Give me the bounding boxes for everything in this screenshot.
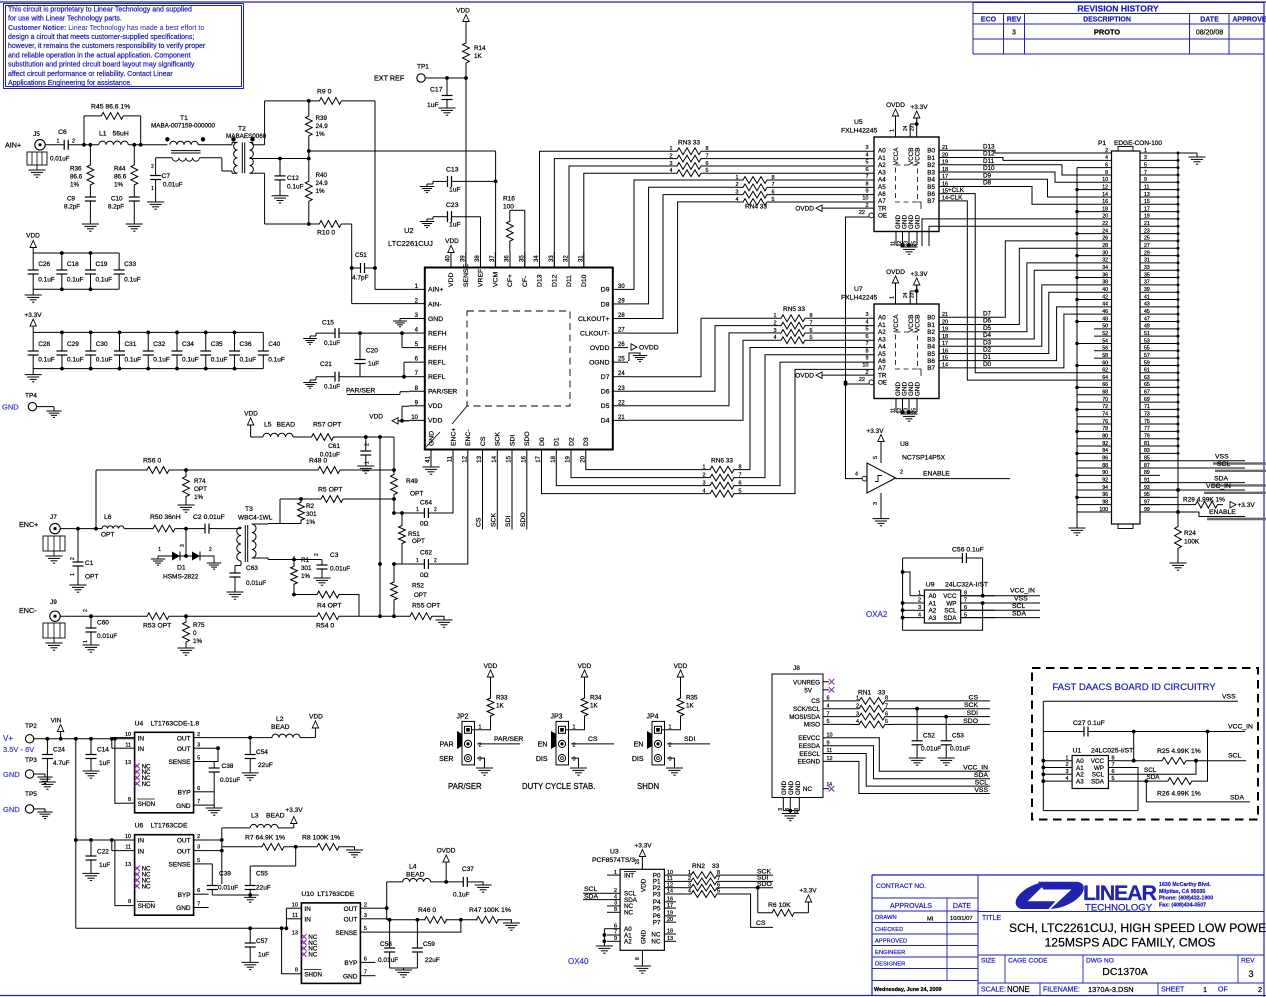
svg-text:R53 OPT: R53 OPT — [143, 623, 171, 630]
svg-text:OPT: OPT — [410, 491, 423, 498]
svg-text:11: 11 — [292, 913, 298, 919]
svg-text:41: 41 — [426, 455, 432, 462]
svg-text:T1: T1 — [180, 115, 188, 122]
svg-text:C15: C15 — [322, 320, 334, 327]
svg-text:TITLE: TITLE — [982, 915, 1001, 922]
svg-text:FAST DAACS BOARD ID CIRCUITRY: FAST DAACS BOARD ID CIRCUITRY — [1052, 682, 1216, 693]
svg-text:R1: R1 — [301, 557, 310, 564]
svg-text:DIS: DIS — [536, 756, 548, 763]
svg-text:SIZE: SIZE — [981, 958, 996, 965]
svg-text:A0: A0 — [929, 593, 937, 600]
svg-text:24: 24 — [618, 371, 625, 377]
svg-text:11: 11 — [448, 455, 454, 462]
svg-text:OVDD: OVDD — [795, 206, 814, 213]
svg-text:CS: CS — [588, 736, 598, 743]
svg-text:3: 3 — [614, 901, 617, 907]
svg-text:1%: 1% — [306, 519, 316, 526]
svg-text:29: 29 — [618, 298, 625, 304]
svg-text:6: 6 — [1112, 769, 1115, 775]
svg-text:A0: A0 — [878, 315, 886, 322]
svg-text:EDGE-CON-100: EDGE-CON-100 — [1114, 140, 1162, 147]
svg-text:L6: L6 — [104, 514, 112, 521]
svg-text:86.6: 86.6 — [70, 174, 83, 181]
U6 OUT wires to L3 — [209, 839, 222, 841]
svg-text:27: 27 — [618, 328, 625, 334]
svg-text:TP4: TP4 — [25, 393, 37, 400]
svg-text:LT1763CDE: LT1763CDE — [151, 823, 188, 830]
svg-text:LINEAR: LINEAR — [1083, 881, 1158, 905]
U4 OUT wire to L2 — [209, 737, 272, 739]
svg-text:PAR/SER: PAR/SER — [494, 736, 523, 743]
wire CF+ pin36 stub — [509, 252, 511, 268]
svg-text:BYP: BYP — [178, 892, 191, 899]
svg-text:OXA2: OXA2 — [866, 610, 888, 619]
svg-text:4: 4 — [1105, 155, 1108, 161]
svg-text:8: 8 — [865, 181, 868, 187]
svg-text:Applications Engineering for a: Applications Engineering for assistance. — [8, 80, 132, 87]
svg-text:24LC32A-I/ST: 24LC32A-I/ST — [945, 582, 988, 589]
svg-text:IN: IN — [304, 906, 311, 913]
wire R10 branch to AIN- pin — [351, 224, 353, 304]
svg-text:R2: R2 — [306, 503, 315, 510]
svg-text:ENC-: ENC- — [465, 429, 472, 446]
U7 TR OVDD arrow — [816, 372, 822, 378]
svg-text:JP4: JP4 — [647, 714, 659, 721]
svg-text:20: 20 — [1102, 214, 1108, 220]
svg-text:R49: R49 — [406, 478, 418, 485]
svg-text:9: 9 — [865, 355, 868, 361]
svg-text:A2: A2 — [878, 329, 886, 336]
U2 REFL tie pins6-7 — [404, 361, 409, 363]
svg-text:SCL: SCL — [584, 886, 597, 893]
svg-text:R45 86.6 1%: R45 86.6 1% — [91, 104, 130, 111]
svg-text:1: 1 — [856, 696, 859, 702]
svg-text:ENC+: ENC+ — [19, 520, 38, 529]
svg-text:VCC_IN: VCC_IN — [1206, 483, 1231, 490]
resistor R6 10K — [756, 886, 760, 890]
svg-text:D7: D7 — [601, 374, 610, 381]
title block title area — [978, 911, 1264, 913]
wire J7 to L6 — [60, 528, 102, 530]
U7 output wires D7-D0 to P1 — [939, 241, 1094, 317]
svg-text:U4: U4 — [135, 720, 144, 727]
svg-text:C39: C39 — [219, 871, 231, 878]
svg-text:RN6 33: RN6 33 — [711, 458, 733, 465]
svg-text:2: 2 — [197, 732, 200, 738]
svg-text:VDD: VDD — [448, 273, 455, 287]
svg-text:19: 19 — [667, 911, 673, 917]
svg-text:D6: D6 — [601, 389, 610, 396]
svg-text:J8: J8 — [793, 665, 800, 672]
svg-text:SCH, LTC2261CUJ, HIGH SPEED LO: SCH, LTC2261CUJ, HIGH SPEED LOW POWER, — [1009, 921, 1266, 935]
svg-text:11: 11 — [125, 742, 131, 748]
svg-text:ENC+: ENC+ — [450, 428, 457, 446]
svg-text:3: 3 — [702, 480, 705, 486]
svg-text:42: 42 — [1102, 294, 1108, 300]
svg-text:0.1uF: 0.1uF — [211, 357, 228, 364]
svg-text:D8: D8 — [601, 301, 610, 308]
svg-text:C17: C17 — [430, 87, 443, 94]
svg-text:CS: CS — [476, 517, 483, 527]
svg-text:2: 2 — [479, 742, 482, 748]
svg-text:VCCA: VCCA — [893, 147, 900, 165]
svg-text:0.1uF: 0.1uF — [182, 357, 199, 364]
svg-text:C19: C19 — [96, 261, 108, 268]
wire OVDD supply to P1 pin20 — [922, 219, 1094, 246]
P1 pin95 jog to VCC_IN — [1140, 490, 1178, 497]
svg-text:R50 36nH: R50 36nH — [150, 514, 181, 521]
wire D13 to RN3 — [540, 151, 672, 267]
svg-text:R33: R33 — [496, 695, 508, 702]
wire D7 to RN5 — [628, 318, 775, 376]
svg-text:VSS: VSS — [1215, 453, 1229, 460]
svg-text:ENABLE: ENABLE — [1209, 509, 1236, 516]
svg-text:D12: D12 — [983, 151, 995, 158]
svg-text:10: 10 — [292, 902, 298, 908]
svg-text:4: 4 — [614, 894, 617, 900]
wire SDA to edge — [1146, 781, 1250, 802]
svg-text:2: 2 — [434, 507, 437, 513]
U10 OUT wires — [375, 907, 386, 909]
svg-text:22uF: 22uF — [425, 957, 440, 964]
svg-text:FXLH42245: FXLH42245 — [841, 128, 877, 135]
JP4 body — [652, 721, 665, 765]
svg-text:16: 16 — [1102, 199, 1108, 205]
svg-text:REV: REV — [1007, 17, 1022, 24]
svg-text:U3: U3 — [610, 849, 619, 856]
svg-text:4.7uF: 4.7uF — [53, 760, 70, 767]
svg-text:REFH: REFH — [428, 330, 447, 337]
U2 pin3 GND — [400, 318, 409, 320]
svg-text:B1: B1 — [927, 155, 935, 162]
svg-text:C31: C31 — [124, 341, 136, 348]
svg-text:OX40: OX40 — [568, 957, 589, 966]
svg-text:C26: C26 — [38, 261, 50, 268]
svg-text:4: 4 — [1065, 776, 1068, 782]
svg-text:NC: NC — [651, 939, 661, 946]
svg-text:22: 22 — [859, 210, 865, 216]
svg-text:24.9: 24.9 — [316, 123, 329, 130]
svg-text:3: 3 — [773, 328, 776, 334]
svg-text:8: 8 — [128, 797, 131, 803]
svg-text:B2: B2 — [927, 329, 935, 336]
svg-text:0.01uF: 0.01uF — [246, 580, 266, 587]
svg-text:0.01uF: 0.01uF — [97, 633, 117, 640]
svg-text:86.6: 86.6 — [114, 174, 127, 181]
svg-text:1uF: 1uF — [99, 760, 110, 767]
svg-text:SCALE:: SCALE: — [981, 987, 1006, 994]
svg-text:A4: A4 — [878, 344, 886, 351]
svg-text:APPROVED: APPROVED — [875, 939, 907, 945]
svg-text:5: 5 — [364, 926, 367, 932]
U9 A0 wire — [903, 572, 910, 596]
svg-text:4: 4 — [702, 488, 705, 494]
svg-text:OUT: OUT — [177, 838, 191, 845]
svg-text:1: 1 — [151, 186, 154, 192]
power VDD arrow after L2 — [300, 737, 315, 739]
svg-text:U5: U5 — [854, 119, 863, 126]
svg-text:1: 1 — [365, 461, 371, 464]
svg-text:A5: A5 — [878, 184, 886, 191]
svg-text:D3: D3 — [583, 437, 590, 446]
svg-text:0.01uF: 0.01uF — [378, 957, 398, 964]
svg-text:1: 1 — [158, 547, 161, 553]
svg-text:39: 39 — [460, 255, 466, 262]
svg-text:VDD: VDD — [369, 414, 383, 421]
wire CLKOUT- to RN4 — [628, 202, 737, 333]
svg-text:A1: A1 — [878, 322, 886, 329]
svg-text:16: 16 — [521, 455, 527, 462]
svg-text:R51: R51 — [408, 531, 420, 538]
svg-text:30: 30 — [618, 284, 625, 290]
svg-text:3: 3 — [865, 145, 868, 151]
svg-text:C23: C23 — [446, 202, 459, 209]
svg-text:REFL: REFL — [428, 374, 446, 381]
svg-text:P3: P3 — [653, 891, 661, 898]
wire U1 SCL to R25 — [1120, 761, 1196, 775]
svg-text:R55 OPT: R55 OPT — [412, 603, 440, 610]
svg-text:REFL: REFL — [428, 359, 446, 366]
svg-text:R25 4.99K 1%: R25 4.99K 1% — [1157, 748, 1201, 755]
svg-text:5: 5 — [1112, 776, 1115, 782]
svg-text:A0: A0 — [878, 148, 886, 155]
svg-text:SENSE: SENSE — [169, 759, 192, 766]
svg-text:1uF: 1uF — [427, 102, 439, 109]
svg-text:13: 13 — [292, 930, 298, 936]
svg-text:VCCA: VCCA — [893, 314, 900, 332]
svg-text:B3: B3 — [927, 169, 935, 176]
svg-text:1: 1 — [1203, 985, 1207, 994]
svg-text:10: 10 — [411, 415, 418, 421]
svg-text:R47 100K 1%: R47 100K 1% — [469, 907, 511, 914]
svg-text:Fax: (408)434-0507: Fax: (408)434-0507 — [1159, 902, 1206, 908]
svg-text:2: 2 — [735, 182, 738, 188]
svg-text:3: 3 — [669, 757, 672, 763]
svg-text:3: 3 — [364, 913, 367, 919]
svg-text:VREF: VREF — [478, 269, 485, 287]
svg-text:C40: C40 — [268, 341, 280, 348]
svg-text:1: 1 — [890, 129, 896, 132]
svg-text:DWG NO: DWG NO — [1086, 958, 1114, 965]
svg-text:D3: D3 — [983, 339, 992, 346]
svg-text:86: 86 — [1102, 455, 1108, 461]
svg-text:+3.3V: +3.3V — [634, 843, 652, 850]
svg-text:OVDD: OVDD — [886, 269, 905, 276]
svg-text:VCM: VCM — [492, 272, 499, 287]
wire C6 to node A — [74, 144, 99, 146]
svg-text:VSS: VSS — [1014, 596, 1028, 603]
wire T1 secondary right to T2 — [199, 157, 222, 159]
svg-text:R7 64.9K 1%: R7 64.9K 1% — [245, 835, 285, 842]
svg-text:23: 23 — [910, 125, 916, 131]
svg-text:1uF: 1uF — [368, 361, 379, 368]
U7 inner dashed — [896, 332, 918, 369]
svg-text:IN: IN — [138, 735, 145, 742]
svg-text:SDA: SDA — [1012, 611, 1026, 618]
svg-text:16: 16 — [667, 897, 673, 903]
svg-text:U7: U7 — [854, 286, 863, 293]
svg-text:D7: D7 — [983, 311, 992, 318]
svg-text:1%: 1% — [194, 494, 204, 501]
svg-text:80: 80 — [1102, 434, 1108, 440]
svg-text:B2: B2 — [927, 162, 935, 169]
svg-text:IN: IN — [138, 848, 145, 855]
svg-text:3: 3 — [573, 757, 576, 763]
svg-text:22: 22 — [859, 377, 865, 383]
svg-text:1uF: 1uF — [449, 187, 461, 194]
svg-text:VUNREG: VUNREG — [793, 679, 820, 686]
svg-text:10: 10 — [125, 732, 131, 738]
svg-text:C60: C60 — [97, 620, 109, 627]
svg-text:C61: C61 — [328, 443, 340, 450]
svg-text:1%: 1% — [114, 182, 124, 189]
svg-text:+3.3V: +3.3V — [866, 428, 884, 435]
svg-text:PROTO: PROTO — [1094, 28, 1120, 37]
svg-text:OGND: OGND — [589, 359, 609, 366]
U6 SHDN wire — [115, 840, 123, 906]
svg-text:6: 6 — [885, 711, 888, 717]
JP3 body — [556, 721, 569, 765]
wire T2 center tap — [250, 158, 309, 160]
svg-text:GND: GND — [3, 805, 20, 814]
svg-text:0.1uF: 0.1uF — [96, 277, 113, 284]
svg-text:SCL: SCL — [944, 608, 957, 615]
svg-text:NC7SP14P5X: NC7SP14P5X — [902, 455, 946, 462]
svg-text:AIN+: AIN+ — [5, 141, 21, 150]
svg-text:DESCRIPTION: DESCRIPTION — [1083, 17, 1131, 24]
svg-text:SDI: SDI — [505, 516, 512, 527]
P1 right bus — [1177, 153, 1179, 513]
svg-text:76: 76 — [1102, 419, 1108, 425]
svg-text:72: 72 — [1102, 404, 1108, 410]
svg-text:3: 3 — [778, 808, 784, 811]
svg-text:J5: J5 — [33, 131, 40, 138]
svg-text:A7: A7 — [878, 198, 886, 205]
wire D10 to RN3 — [584, 173, 671, 267]
svg-text:4: 4 — [865, 152, 868, 158]
wire CLKOUT+ to RN4 — [628, 195, 737, 319]
svg-text:0.1uF: 0.1uF — [67, 277, 84, 284]
svg-text:3: 3 — [1065, 769, 1068, 775]
svg-text:CLKOUT+: CLKOUT+ — [578, 316, 610, 323]
proprietary notice box — [4, 4, 244, 89]
svg-text:4: 4 — [918, 612, 921, 618]
svg-text:5: 5 — [885, 719, 888, 725]
svg-text:CF+: CF+ — [507, 274, 514, 287]
svg-text:CHECKED: CHECKED — [875, 927, 903, 933]
power +3.3V arrow R6 — [807, 904, 809, 913]
svg-text:TP5: TP5 — [25, 791, 37, 798]
svg-text:C53: C53 — [952, 733, 964, 740]
svg-text:17: 17 — [536, 455, 542, 462]
svg-text:MISO: MISO — [804, 722, 820, 729]
JP2 body — [462, 721, 475, 765]
svg-text:APPROVALS: APPROVALS — [890, 903, 932, 910]
svg-text:GND: GND — [795, 781, 802, 795]
wire D4 to RN5 — [628, 340, 775, 420]
svg-text:TP3: TP3 — [25, 757, 37, 764]
svg-text:5V: 5V — [804, 688, 813, 695]
svg-text:5: 5 — [197, 756, 200, 762]
svg-text:1: 1 — [416, 558, 419, 564]
svg-text:R54 0: R54 0 — [316, 623, 334, 630]
svg-text:BEAD: BEAD — [277, 422, 296, 429]
svg-text:A3: A3 — [878, 336, 886, 343]
svg-text:R26 4.99K 1%: R26 4.99K 1% — [1157, 791, 1201, 798]
svg-text:R56 0: R56 0 — [143, 458, 161, 465]
svg-text:5: 5 — [717, 889, 720, 895]
svg-text:CF-: CF- — [522, 276, 529, 287]
U3 GND pin ground — [641, 950, 643, 966]
svg-text:T2: T2 — [238, 126, 246, 133]
svg-text:A7: A7 — [878, 365, 886, 372]
svg-text:13: 13 — [477, 455, 483, 462]
svg-text:D10: D10 — [581, 274, 588, 287]
svg-text:PCF8574TS/3: PCF8574TS/3 — [592, 857, 635, 864]
svg-text:DRAWN: DRAWN — [875, 915, 897, 921]
svg-text:SCL: SCL — [975, 780, 988, 787]
svg-text:0.01uF: 0.01uF — [330, 566, 350, 573]
svg-text:R16: R16 — [503, 196, 515, 203]
U2 pin25 OGND — [628, 353, 640, 360]
svg-text:J9: J9 — [50, 599, 57, 606]
svg-text:WP: WP — [946, 600, 956, 607]
svg-text:25: 25 — [912, 241, 918, 247]
svg-text:2: 2 — [197, 834, 200, 840]
wire D2 to RN6 — [571, 464, 704, 478]
svg-text:A3: A3 — [929, 615, 937, 622]
power +3.3V arrow after L3 — [278, 827, 294, 829]
svg-text:1K: 1K — [686, 703, 695, 710]
svg-text:AIN+: AIN+ — [428, 287, 443, 294]
svg-text:7: 7 — [865, 174, 868, 180]
svg-text:7: 7 — [865, 341, 868, 347]
svg-text:25: 25 — [618, 357, 625, 363]
svg-text:3: 3 — [1248, 969, 1253, 979]
svg-text:1uF: 1uF — [449, 222, 461, 229]
svg-text:EESCL: EESCL — [799, 751, 820, 758]
svg-text:B7: B7 — [927, 365, 935, 372]
svg-text:A1: A1 — [878, 155, 886, 162]
svg-text:FILENAME:: FILENAME: — [1043, 987, 1080, 994]
svg-text:D0: D0 — [539, 437, 546, 446]
svg-text:B7: B7 — [927, 198, 935, 205]
svg-text:MABA-007159-000000: MABA-007159-000000 — [151, 123, 216, 130]
svg-text:D1: D1 — [177, 565, 186, 572]
svg-text:3: 3 — [479, 757, 482, 763]
svg-text:+3.3V: +3.3V — [910, 271, 928, 278]
svg-text:ENGINEER: ENGINEER — [875, 950, 905, 956]
svg-text:8: 8 — [614, 907, 617, 913]
svg-text:A6: A6 — [878, 191, 886, 198]
svg-text:8: 8 — [1112, 755, 1115, 761]
wire D6 to RN5 — [628, 326, 775, 392]
svg-text:D13: D13 — [537, 274, 544, 287]
svg-text:58: 58 — [1102, 353, 1108, 359]
svg-text:SDA: SDA — [974, 772, 988, 779]
svg-text:C52: C52 — [923, 733, 935, 740]
svg-text:56: 56 — [1102, 346, 1108, 352]
svg-text:5: 5 — [827, 719, 830, 725]
svg-text:C12: C12 — [287, 175, 299, 182]
svg-text:R46 0: R46 0 — [418, 907, 436, 914]
svg-text:R36: R36 — [70, 166, 82, 173]
svg-text:56uH: 56uH — [113, 131, 129, 138]
svg-text:2: 2 — [151, 164, 154, 170]
svg-text:2: 2 — [918, 598, 921, 604]
svg-text:OUT: OUT — [177, 848, 191, 855]
svg-text:2: 2 — [365, 443, 371, 446]
